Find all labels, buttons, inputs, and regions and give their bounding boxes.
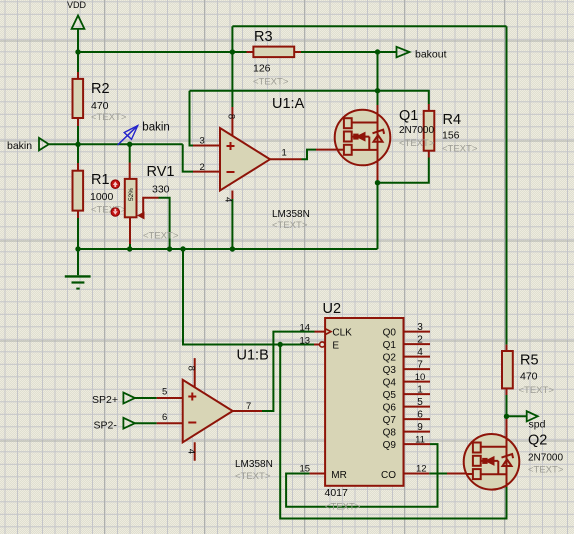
junction node spd tee: [504, 414, 509, 419]
wire RV1 bottom: [129, 244, 131, 249]
svg-text:13: 13: [300, 336, 311, 347]
svg-text:3: 3: [200, 136, 205, 147]
U2 clock chevron: [325, 329, 331, 335]
svg-text:<TEXT>: <TEXT>: [442, 144, 478, 155]
svg-text:2N7000: 2N7000: [399, 125, 434, 136]
resistor R3: [247, 47, 302, 58]
U2 right pin stubs: [404, 332, 431, 474]
svg-text:4: 4: [417, 347, 423, 358]
junction node ground/E net: [180, 246, 185, 251]
wire VDD rail horizontal: [78, 51, 247, 53]
svg-text:2: 2: [417, 335, 423, 346]
wire R5 bottom to spd junction: [506, 395, 508, 416]
wire bakout down: [377, 52, 379, 91]
wire E junction down: [280, 345, 506, 519]
wire pin7 loop: [262, 332, 315, 411]
svg-text:<TEXT>: <TEXT>: [91, 112, 127, 123]
wire VDD rail up: [231, 26, 233, 52]
wire bakin horizontal: [49, 143, 183, 145]
svg-text:7: 7: [417, 360, 423, 371]
svg-text:15: 15: [300, 464, 311, 475]
svg-text:11: 11: [415, 435, 425, 446]
junction node Q1 source/R4: [375, 180, 380, 185]
junction node bakin/R2/R1: [75, 142, 80, 147]
svg-text:470: 470: [520, 371, 538, 383]
svg-text:Q3: Q3: [383, 365, 397, 376]
ground: [65, 249, 91, 289]
wire RV1 top: [129, 144, 131, 162]
resistor R1: [73, 163, 84, 218]
svg-text:<TEXT>: <TEXT>: [91, 205, 127, 216]
junction node ground/wiper: [167, 246, 172, 251]
wire CO to Q2 gate: [429, 473, 447, 475]
op-amp U1:B: [157, 358, 262, 461]
wire Q2 source green: [506, 487, 508, 519]
junction node ground/R1: [75, 246, 80, 251]
svg-text:RV1: RV1: [147, 164, 175, 180]
wire ground rail: [78, 248, 378, 250]
RV1 wiper arm: [143, 198, 158, 215]
wire feedback horizontal: [190, 90, 378, 92]
svg-text:5: 5: [162, 387, 167, 398]
wire R1 top: [77, 144, 79, 163]
svg-text:5: 5: [417, 397, 423, 408]
svg-text:R2: R2: [91, 81, 110, 97]
RV1 down button: [111, 208, 120, 217]
IC U2 4017: [310, 318, 430, 486]
resistor R4: [424, 104, 435, 158]
svg-text:<TEXT>: <TEXT>: [519, 385, 555, 396]
svg-text:52%: 52%: [128, 188, 135, 201]
svg-text:R1: R1: [91, 172, 110, 188]
svg-text:LM358N: LM358N: [235, 459, 273, 470]
svg-text:4: 4: [223, 197, 234, 202]
svg-text:Q9: Q9: [383, 440, 397, 451]
svg-text:Q8: Q8: [383, 428, 397, 439]
wire Q1 drain green: [377, 91, 379, 105]
terminal bakout: [397, 47, 410, 58]
junction node bakout tee: [375, 49, 380, 54]
svg-text:Q1: Q1: [383, 340, 397, 351]
junction node VDD/R2: [75, 49, 80, 54]
svg-text:VDD: VDD: [67, 0, 87, 10]
U2 left pin stubs: [310, 332, 326, 474]
wire Q1 source rail up: [377, 183, 379, 249]
resistor R2: [73, 72, 84, 126]
svg-text:E: E: [332, 341, 339, 352]
wire pin4 U1:A: [231, 199, 233, 249]
svg-text:8: 8: [226, 114, 237, 119]
svg-text:bakout: bakout: [415, 49, 447, 61]
wire pin8 U1:A: [231, 52, 233, 107]
svg-text:Q4: Q4: [383, 378, 397, 389]
svg-text:<TEXT>: <TEXT>: [528, 465, 564, 476]
svg-text:470: 470: [91, 100, 109, 112]
wire E net vertical: [183, 249, 314, 345]
svg-text:6: 6: [417, 410, 423, 421]
transistor Q1: [316, 105, 390, 183]
svg-text:126: 126: [253, 63, 271, 75]
wire label bakin (blue): [118, 122, 170, 146]
wire top rail: [232, 25, 506, 27]
wire feedback down to pin3: [190, 91, 194, 146]
svg-text:R5: R5: [520, 353, 539, 369]
svg-text:LM358N: LM358N: [272, 209, 310, 220]
svg-text:Q2: Q2: [528, 433, 547, 449]
svg-text:4: 4: [186, 449, 197, 454]
svg-text:1: 1: [417, 385, 423, 396]
svg-text:Q6: Q6: [383, 403, 397, 414]
svg-text:1000: 1000: [90, 191, 114, 203]
svg-text:CLK: CLK: [332, 328, 352, 339]
svg-text:U1:B: U1:B: [237, 348, 269, 364]
svg-text:bakin: bakin: [142, 122, 170, 134]
terminal spd: [527, 411, 538, 421]
svg-text:2N7000: 2N7000: [528, 453, 563, 464]
junction node ground/RV1: [127, 246, 132, 251]
svg-text:Q0: Q0: [383, 328, 397, 339]
svg-text:U1:A: U1:A: [272, 96, 305, 112]
svg-text:10: 10: [415, 372, 426, 383]
svg-text:7: 7: [246, 401, 251, 412]
svg-text:<TEXT>: <TEXT>: [399, 138, 435, 149]
svg-text:12: 12: [416, 464, 427, 475]
junction node feedback/R4/Q1 drain: [375, 88, 380, 93]
svg-text:R3: R3: [254, 29, 273, 45]
wire spd stub: [507, 415, 527, 417]
RV1 up button: [111, 180, 120, 189]
wire R2 bottom: [77, 126, 79, 144]
svg-text:R4: R4: [443, 112, 462, 128]
svg-text:14: 14: [300, 323, 311, 334]
wire R2 top: [77, 52, 79, 72]
potentiometer RV1: [125, 163, 159, 245]
wire RV1 wiper green: [159, 198, 170, 249]
wire MR loop: [286, 444, 437, 507]
svg-text:<TEXT>: <TEXT>: [325, 502, 361, 513]
svg-text:Q2: Q2: [383, 353, 397, 364]
junction node bakin/RV1: [127, 142, 132, 147]
svg-text:<TEXT>: <TEXT>: [235, 471, 271, 482]
wire bakin to pin2: [183, 144, 193, 171]
op-amp U1:A: [193, 107, 302, 199]
svg-text:6: 6: [162, 412, 167, 423]
wire pin1 to Q1 gate: [302, 150, 317, 160]
junction node ground/pin4: [230, 246, 235, 251]
wire pin5: [135, 397, 157, 399]
transistor Q2: [447, 418, 519, 490]
svg-text:Q5: Q5: [383, 390, 397, 401]
svg-text:1: 1: [282, 148, 287, 159]
svg-text:<TEXT>: <TEXT>: [272, 220, 308, 231]
wire right rail down to R5: [506, 26, 508, 344]
svg-text:4017: 4017: [325, 487, 349, 499]
wire Q1 source to R4 bottom: [378, 158, 429, 183]
svg-text:spd: spd: [529, 419, 546, 431]
terminal SP2+: [123, 393, 134, 404]
svg-text:U2: U2: [323, 301, 342, 317]
power VDD: [72, 16, 85, 29]
svg-text:156: 156: [442, 130, 460, 142]
svg-text:SP2+: SP2+: [92, 394, 118, 406]
wire R1 bottom: [77, 218, 79, 249]
svg-text:Q1: Q1: [399, 108, 418, 124]
svg-text:<TEXT>: <TEXT>: [253, 77, 289, 88]
wire junction to R4 top: [378, 91, 429, 104]
svg-text:2: 2: [200, 162, 205, 173]
svg-text:<TEXT>: <TEXT>: [143, 231, 179, 242]
U2 enable bubble: [320, 342, 325, 347]
svg-text:330: 330: [152, 184, 170, 196]
svg-text:bakin: bakin: [7, 140, 32, 152]
svg-text:9: 9: [417, 422, 423, 433]
svg-text:Q7: Q7: [383, 415, 397, 426]
terminal SP2-: [123, 418, 134, 429]
svg-text:8: 8: [185, 366, 196, 371]
svg-text:MR: MR: [331, 470, 347, 481]
wire pin6: [135, 422, 157, 424]
svg-text:3: 3: [417, 322, 423, 333]
wire VDD stem: [77, 29, 79, 52]
junction node E tee: [278, 342, 283, 347]
wire R3 to bakout: [301, 51, 397, 53]
junction node VDD rail corner: [230, 49, 235, 54]
terminal bakin: [39, 138, 49, 151]
svg-text:CO: CO: [381, 470, 396, 481]
svg-text:SP2-: SP2-: [94, 420, 118, 432]
resistor R5: [502, 345, 513, 395]
